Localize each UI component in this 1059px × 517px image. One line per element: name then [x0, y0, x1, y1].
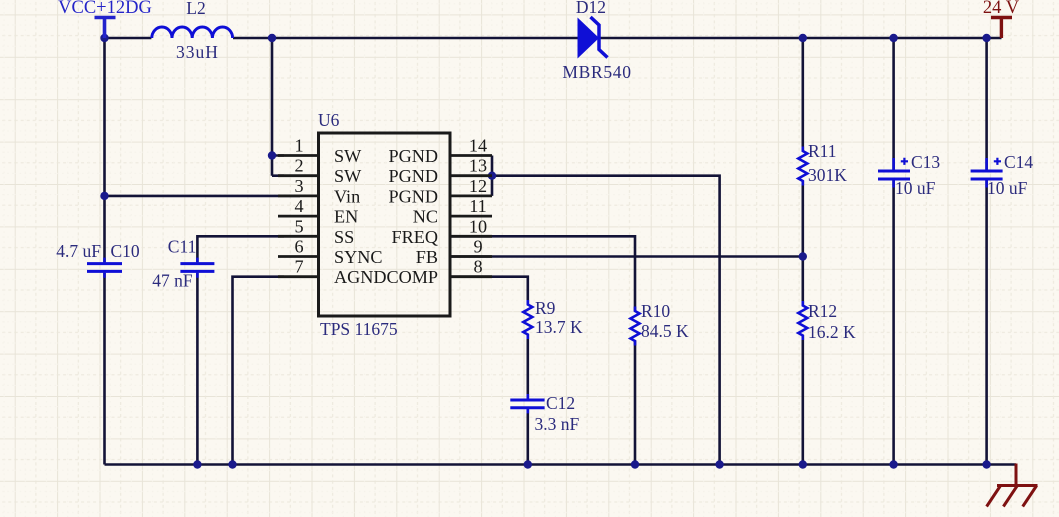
svg-text:U6: U6 [318, 110, 340, 130]
power port 24 V [983, 0, 1020, 38]
svg-text:Vin: Vin [334, 186, 360, 206]
junction VCC rail at Vin [100, 192, 108, 200]
junction top rail at VCC stem [100, 34, 108, 42]
junction ground rail at PGND branch [715, 460, 723, 468]
junction top rail at SW vertical [268, 34, 276, 42]
junction top rail at C13 [889, 34, 897, 42]
svg-text:301K: 301K [808, 165, 847, 185]
U6 pin 2 [278, 156, 362, 187]
svg-text:L2: L2 [186, 0, 205, 18]
wire C14 bottom to ground rail [985, 180, 988, 464]
wire C12 bottom to ground rail [526, 409, 529, 464]
svg-text:C10: C10 [111, 241, 140, 261]
wire Vin pin3 to VCC rail [105, 195, 301, 198]
wire top rail right of L2 [233, 37, 1002, 40]
svg-text:10 uF: 10 uF [895, 178, 936, 198]
wire VCC rail vertical upper [103, 38, 106, 262]
U6 pin 13 [388, 156, 492, 187]
wire PGND pins 14-12 tie [492, 156, 720, 465]
wire bottom ground rail [105, 463, 1017, 466]
svg-text:VCC+12DG: VCC+12DG [58, 0, 152, 18]
U6 pin 12 [388, 176, 492, 207]
U6 pin 5 [278, 216, 354, 247]
resistor R9 [523, 298, 583, 339]
svg-text:6: 6 [294, 237, 303, 257]
svg-text:5: 5 [294, 216, 303, 236]
svg-text:C14: C14 [1004, 152, 1033, 172]
svg-text:SW: SW [334, 146, 362, 166]
svg-text:SYNC: SYNC [334, 247, 383, 267]
IC U6 body (TPS 11675) [318, 110, 450, 339]
svg-text:R11: R11 [808, 141, 837, 161]
svg-text:R10: R10 [641, 301, 670, 321]
svg-text:10: 10 [469, 216, 487, 236]
U6 pin 9 [416, 237, 492, 268]
svg-text:4: 4 [294, 196, 303, 216]
junction ground rail at R12 [799, 460, 807, 468]
svg-text:16.2 K: 16.2 K [808, 322, 856, 342]
wire COMP pin8 to R9 [450, 277, 528, 305]
svg-text:PGND: PGND [388, 166, 438, 186]
svg-text:C12: C12 [546, 393, 575, 413]
svg-text:24 V: 24 V [983, 0, 1020, 18]
svg-text:13.7 K: 13.7 K [535, 317, 583, 337]
svg-text:NC: NC [413, 207, 438, 227]
svg-text:R12: R12 [808, 301, 837, 321]
U6 pin 6 [278, 237, 383, 268]
svg-text:D12: D12 [576, 0, 606, 17]
U6 pin 10 [392, 216, 493, 247]
svg-text:MBR540: MBR540 [562, 62, 631, 82]
wire R11 to FB node [801, 181, 804, 257]
svg-text:PGND: PGND [388, 186, 438, 206]
resistor R10 [631, 301, 690, 346]
wire C13 bottom to ground rail [892, 180, 895, 464]
U6 pin 14 [388, 136, 492, 167]
resistor R11 [798, 141, 847, 186]
svg-text:12: 12 [469, 176, 487, 196]
svg-text:33uH: 33uH [176, 42, 219, 62]
svg-text:FB: FB [416, 247, 438, 267]
svg-text:AGND: AGND [334, 267, 387, 287]
wire FB node to R12 [801, 257, 804, 307]
junction ground rail at R9/C12 [524, 460, 532, 468]
svg-text:10 uF: 10 uF [987, 178, 1028, 198]
U6 pin 1 [278, 136, 362, 167]
svg-text:9: 9 [473, 237, 482, 257]
junction ground rail at C11 [193, 460, 201, 468]
wire R12 bottom to ground rail [801, 335, 804, 465]
U6 pin 11 [413, 196, 492, 227]
junction ground rail at AGND branch [228, 460, 236, 468]
capacitor C10 [56, 241, 140, 278]
svg-text:14: 14 [469, 136, 487, 156]
capacitor C11 [152, 237, 214, 291]
wire FB pin9 to R11/R12 node [450, 255, 803, 258]
svg-text:47 nF: 47 nF [152, 271, 193, 291]
junction ground rail at C14 [982, 460, 990, 468]
svg-text:2: 2 [294, 156, 303, 176]
wire R9 to C12 [526, 334, 529, 398]
junction SW vertical at pin1 [268, 151, 276, 159]
wire FREQ pin10 to R10 [450, 236, 635, 311]
U6 pin 8 [386, 257, 492, 288]
wire SS pin5 to C11 [197, 236, 284, 262]
junction ground rail at C13 [889, 460, 897, 468]
capacitor C13 (polarized) [878, 152, 940, 198]
capacitor C12 [510, 393, 579, 434]
svg-text:TPS 11675: TPS 11675 [320, 319, 398, 339]
diode D12 MBR540 [562, 0, 631, 82]
ground symbol (bottom right) [987, 464, 1038, 507]
junction top rail at R11 [799, 34, 807, 42]
wire SW pins 1-2 vertical [272, 38, 284, 176]
svg-text:SW: SW [334, 166, 362, 186]
junction top rail at C14 [982, 34, 990, 42]
wire AGND pin7 to ground rail [233, 277, 285, 465]
svg-text:3: 3 [294, 176, 303, 196]
U6 pin 3 [278, 176, 360, 207]
svg-text:COMP: COMP [386, 267, 438, 287]
capacitor C14 (polarized) [971, 152, 1034, 198]
wire top rail (VCC to 24V) [105, 37, 152, 40]
power port VCC+12DG [58, 0, 152, 38]
svg-text:8: 8 [473, 257, 482, 277]
svg-text:PGND: PGND [388, 146, 438, 166]
U6 pin 7 [278, 257, 387, 288]
svg-text:SS: SS [334, 227, 354, 247]
svg-text:4.7 uF: 4.7 uF [56, 241, 101, 261]
svg-text:7: 7 [294, 257, 303, 277]
wire top rail to C14 [985, 38, 988, 170]
svg-text:R9: R9 [535, 298, 556, 318]
wire top rail to R11 [801, 38, 804, 152]
svg-text:EN: EN [334, 207, 358, 227]
junction PGND tie at pin13 [488, 172, 496, 180]
junction ground rail at R10 [631, 460, 639, 468]
svg-text:C11: C11 [168, 237, 197, 257]
resistor R12 [798, 301, 856, 342]
wire C11 bottom to ground rail [196, 273, 199, 465]
wire R10 bottom to ground rail [634, 341, 637, 465]
svg-text:FREQ: FREQ [392, 227, 439, 247]
junction FB node at R11/R12 [799, 252, 807, 260]
svg-text:11: 11 [469, 196, 487, 216]
svg-text:13: 13 [469, 156, 487, 176]
svg-text:3.3 nF: 3.3 nF [535, 414, 580, 434]
wire top rail to C13 [892, 38, 895, 170]
wire VCC rail vertical lower (below C10) [103, 273, 106, 465]
svg-text:C13: C13 [911, 152, 940, 172]
inductor L2 [152, 0, 233, 62]
U6 pin 4 [278, 196, 358, 227]
svg-text:84.5 K: 84.5 K [641, 321, 689, 341]
svg-text:1: 1 [294, 136, 303, 156]
